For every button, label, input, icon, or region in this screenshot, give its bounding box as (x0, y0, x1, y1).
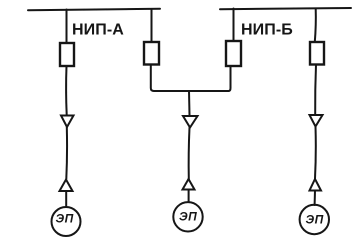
load circle ЭП 2 (173, 202, 202, 231)
load circle ЭП 3 (300, 205, 329, 234)
wire rect2 down to tie (151, 65, 154, 92)
svg-text:ЭП: ЭП (306, 213, 324, 227)
connector up 2 (183, 179, 195, 190)
tie wire (154, 90, 229, 92)
wire rect4 to connector (314, 65, 317, 115)
connector down 2 (183, 116, 198, 128)
wire between connectors 2 (188, 128, 191, 180)
load circle ЭП 1 (52, 207, 81, 236)
wire to load 2 (188, 190, 190, 203)
svg-text:ЭП: ЭП (179, 210, 197, 224)
bus B (НИП-Б busbar) (220, 8, 351, 9)
fuse box 4 (310, 42, 324, 65)
svg-text:ЭП: ЭП (56, 212, 74, 226)
fuse box 3 (226, 41, 241, 66)
connector down 1 (61, 116, 74, 128)
wire rect1 to connector (65, 66, 68, 115)
wire between connectors 3 (314, 127, 317, 179)
connector down 3 (310, 115, 323, 127)
connector up 1 (60, 180, 73, 192)
wire drop A2 (151, 9, 153, 42)
wire drop B1 (233, 9, 235, 42)
wire to load 3 (314, 191, 316, 206)
fuse box 2 (144, 42, 159, 65)
connector up 3 (310, 179, 322, 191)
wire drop B2 (315, 9, 316, 43)
wire between connectors 1 (65, 127, 68, 179)
wire drop A1 (66, 10, 68, 44)
bus A (НИП-А busbar) (28, 9, 160, 11)
svg-text:НИП-А: НИП-А (72, 22, 124, 39)
fuse box 1 (60, 43, 74, 66)
wire middle drop from tie (188, 91, 191, 115)
wire rect3 down to tie (229, 66, 231, 91)
wire to load 1 (65, 191, 67, 207)
svg-text:НИП-Б: НИП-Б (241, 22, 293, 39)
